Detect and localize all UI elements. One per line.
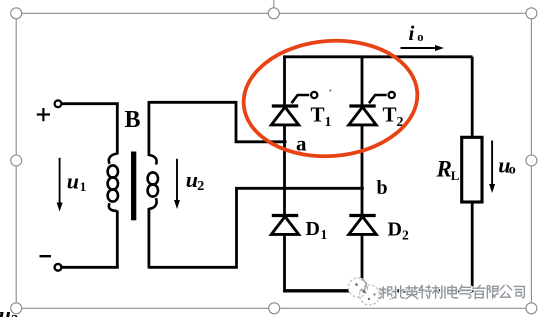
arrow u2 (174, 159, 180, 209)
wire bottom-left (62, 266, 119, 269)
svg-text:u: u (186, 167, 198, 192)
wire T1 branch upper (283, 56, 286, 107)
label u1 (67, 168, 86, 194)
transformer B primary winding (108, 154, 118, 212)
svg-text:i: i (409, 21, 415, 45)
terminal - (negative input) (40, 256, 62, 270)
svg-text:D: D (388, 219, 402, 241)
svg-text:1: 1 (80, 179, 87, 194)
label T2 (383, 103, 404, 131)
watermark logo (348, 278, 380, 306)
svg-text:2: 2 (402, 228, 409, 243)
svg-text:L: L (451, 168, 460, 183)
svg-text:u: u (0, 302, 11, 317)
svg-text:T: T (383, 103, 397, 127)
wire load branch lower (471, 202, 474, 293)
wire D2 to bottom bus (361, 234, 364, 292)
wire T1-D1 branch (through node a) (283, 124, 286, 216)
svg-text:2: 2 (197, 179, 204, 194)
wire top-left (62, 102, 119, 105)
wire secondary bottom leg (147, 208, 150, 269)
thyristor T1 (271, 92, 317, 125)
thyristor T2 (349, 92, 395, 125)
svg-text:1: 1 (321, 227, 328, 242)
svg-text:b: b (377, 177, 388, 199)
wire top bus (283, 55, 472, 58)
label RL (436, 157, 460, 183)
label T1 (311, 103, 332, 131)
annotation: red ellipse highlighting T1 and T2 (239, 35, 421, 163)
svg-text:2: 2 (11, 313, 19, 317)
arrow io (401, 45, 445, 51)
wire D1 to bottom bus (283, 234, 286, 292)
svg-text:u: u (67, 168, 79, 193)
arrow uo (489, 141, 495, 194)
wire T2-D2 branch (through node b) (361, 124, 364, 216)
svg-text:T: T (311, 103, 325, 127)
wire load branch upper (471, 57, 474, 138)
wire secondary top leg (147, 101, 150, 156)
wire secondary top to node a (149, 102, 287, 142)
wire primary bottom leg (116, 211, 119, 269)
terminal + (positive input) (37, 100, 62, 121)
scan speckle (329, 90, 331, 92)
wire bottom bus (283, 289, 472, 292)
label D1 (306, 218, 328, 242)
transformer B core (131, 152, 136, 221)
resistor RL (462, 137, 482, 202)
diode D2 (349, 216, 376, 235)
clipped caption fragment bottom-left (0, 302, 19, 317)
wire T2 branch upper (361, 56, 364, 107)
transformer B secondary winding (148, 155, 158, 209)
svg-text:o: o (417, 30, 423, 44)
wire secondary bottom to node b (149, 188, 364, 267)
watermark text 湖北英特利电气有限公司 (379, 285, 525, 299)
label u2 (186, 167, 205, 194)
label uo (498, 153, 516, 178)
wire primary top leg (116, 103, 119, 155)
diode D1 (271, 216, 298, 235)
arrow u1 (57, 158, 63, 212)
svg-text:R: R (436, 157, 452, 182)
svg-text:o: o (509, 163, 516, 178)
label io (409, 21, 424, 45)
svg-text:D: D (306, 218, 320, 240)
label D2 (388, 219, 410, 243)
svg-text:1: 1 (325, 115, 332, 130)
svg-text:B: B (125, 107, 141, 133)
